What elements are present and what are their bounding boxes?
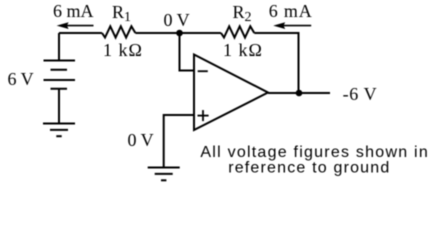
resistor R1 bbox=[102, 26, 135, 37]
svg-text:6 V: 6 V bbox=[8, 69, 34, 89]
wire battery to ground bbox=[58, 89, 60, 124]
inverting input minus symbol bbox=[198, 70, 208, 72]
svg-text:reference to ground: reference to ground bbox=[228, 159, 390, 176]
svg-text:6 mA: 6 mA bbox=[269, 1, 313, 21]
wire right vertical to output node bbox=[298, 32, 300, 93]
svg-text:6 mA: 6 mA bbox=[53, 1, 94, 21]
wire R2 to top-right corner bbox=[254, 32, 298, 34]
ground below battery bbox=[43, 124, 75, 137]
svg-text:-6 V: -6 V bbox=[343, 84, 378, 104]
node junction 0 V bbox=[176, 30, 183, 37]
wire op-amp output bbox=[268, 92, 330, 94]
svg-text:1 kΩ: 1 kΩ bbox=[103, 40, 143, 60]
current arrow 6 mA left bbox=[57, 22, 94, 29]
svg-text:0 V: 0 V bbox=[128, 130, 154, 150]
ground at noninverting input bbox=[148, 168, 180, 181]
resistor R2 bbox=[221, 26, 254, 37]
battery 6 V bbox=[44, 61, 76, 89]
wire battery top to R1 bbox=[59, 32, 102, 34]
svg-text:0 V: 0 V bbox=[164, 10, 190, 30]
node junction output bbox=[296, 90, 303, 97]
wire node down to inverting input bbox=[180, 33, 195, 71]
noninverting input plus symbol bbox=[198, 110, 209, 121]
wire noninverting input bbox=[164, 115, 194, 167]
wire R1 to R2 through node bbox=[135, 32, 221, 34]
current arrow 6 mA right bbox=[273, 22, 311, 29]
op-amp U1 triangle bbox=[194, 55, 268, 131]
wire battery top vertical bbox=[58, 33, 60, 61]
svg-text:1 kΩ: 1 kΩ bbox=[223, 40, 263, 60]
